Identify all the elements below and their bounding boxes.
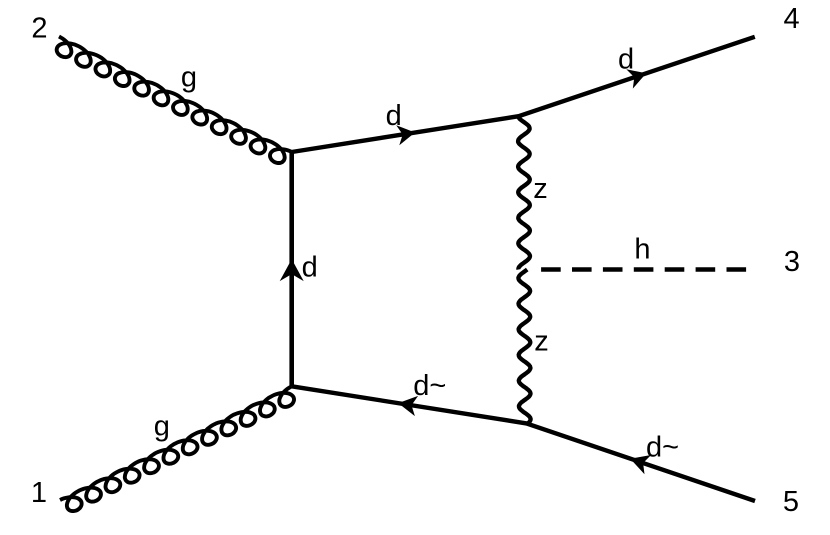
svg-text:1: 1 [31,477,47,509]
svg-text:g: g [181,61,197,93]
svg-text:z: z [534,326,549,358]
svg-text:h: h [634,234,650,266]
svg-text:5: 5 [783,486,799,518]
svg-text:d: d [618,43,634,75]
svg-text:d: d [386,100,402,132]
svg-text:g: g [154,411,170,443]
svg-text:3: 3 [784,246,800,278]
svg-text:2: 2 [31,12,47,44]
svg-text:d: d [302,251,318,283]
svg-text:d~: d~ [413,370,446,402]
svg-text:z: z [533,173,548,205]
svg-text:d~: d~ [646,432,679,464]
svg-text:4: 4 [784,3,800,35]
